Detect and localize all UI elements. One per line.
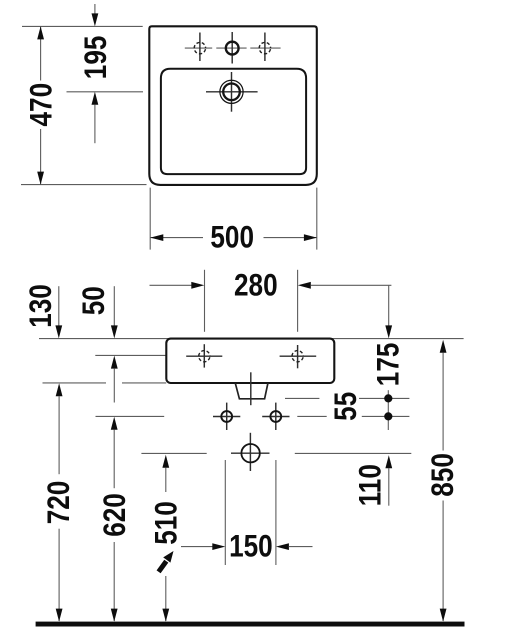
bolt hole right crosshair (262, 416, 289, 418)
dimension 850 line bottom (442, 501, 444, 622)
floor line (36, 622, 465, 627)
svg-text:500: 500 (210, 220, 254, 255)
bolt hole left circle (221, 411, 232, 422)
front view: bolt-hole reference line D (96, 415, 165, 417)
dimension 50 arrow down (111, 325, 118, 338)
dimension 280 arrow left-pointing (298, 282, 311, 289)
280 extension line right (297, 270, 299, 332)
dimension 470 line (40, 27, 42, 81)
tap hole crosshair vertical (231, 72, 233, 112)
faucet hole centre (solid circle) (226, 42, 239, 55)
dimension 50 arrow line bottom (113, 368, 115, 402)
dimension 175 arrow line (388, 285, 390, 326)
svg-text:110: 110 (353, 464, 388, 506)
svg-text:470: 470 (24, 83, 59, 127)
front view: basin-bottom reference line C (43, 382, 107, 384)
top view: extension line tap-hole centre (195 lower ref) (67, 91, 144, 93)
dimension 510 arrow down (162, 609, 169, 622)
fixing hole left crosshair (186, 355, 222, 357)
dimension 195 line top (94, 4, 96, 15)
front view: fixing-hole reference line B (95, 354, 166, 356)
faucet hole centre vertical centreline (231, 32, 233, 64)
dimension 195 arrow down (92, 13, 99, 26)
top view: extension line top (470/195 upper ref) (22, 25, 143, 27)
faucet hole right (dashed circle) (259, 42, 270, 53)
dimension 620 arrow up (111, 417, 118, 430)
dimension 620 arrow down (111, 609, 118, 622)
basin front outline (166, 339, 334, 383)
fixing hole left (dashed circle) (199, 351, 210, 362)
svg-text:510: 510 (149, 501, 184, 545)
tap hole crosshair horizontal (206, 91, 258, 93)
tap hole outer circle (220, 80, 243, 103)
front view: outlet reference line E (141, 452, 206, 454)
dimension 50 arrow up (111, 356, 118, 369)
dimension 150 arrow left-pointing (276, 543, 289, 550)
faucet hole left (dashed circle) (194, 42, 205, 53)
svg-text:130: 130 (24, 284, 59, 328)
dimension 280 right tail (311, 284, 392, 286)
outlet circle (241, 444, 259, 462)
siphon trapezoid (235, 383, 268, 399)
dimension 850 arrow up (440, 340, 447, 353)
dimension 510 line bottom (165, 576, 167, 621)
280 extension line left (204, 270, 206, 332)
dimension 620 line top (113, 430, 115, 489)
dimension 500 arrow right (304, 234, 317, 241)
faucet hole right vertical centreline (264, 33, 266, 62)
dimension 195 line bottom (94, 105, 96, 144)
bolt hole right circle (270, 411, 281, 422)
dimension 470 arrow up (37, 26, 44, 39)
dimension 620 line bottom (113, 542, 115, 621)
dimension 470 arrow down (37, 172, 44, 185)
svg-text:175: 175 (371, 343, 406, 387)
svg-text:720: 720 (42, 481, 77, 525)
outlet direction arrow (bold diagonal) (159, 561, 167, 572)
dimension 110 arrow line (388, 468, 390, 506)
dimension 55 dot top (384, 394, 392, 402)
faucet centreline dashes (185, 47, 212, 49)
svg-text:620: 620 (98, 493, 133, 537)
dimension 175 arrow down (385, 325, 392, 338)
dimension 130 arrow down (55, 325, 62, 338)
dimension 850 arrow down (440, 609, 447, 622)
top view: extension line bottom (470 lower ref) (21, 184, 147, 186)
outlet crosshair (231, 452, 270, 454)
dimension 720 arrow up (56, 383, 63, 396)
tap hole inner circle (223, 84, 240, 101)
dimension 510 arrow up (162, 455, 169, 468)
dimension 720 line bottom (58, 529, 60, 621)
dimension 55 dot bottom (384, 412, 392, 420)
dimension 110 arrow up (385, 455, 392, 468)
siphon centreline (250, 372, 252, 405)
svg-text:55: 55 (329, 392, 364, 421)
bolt hole left crosshair (213, 416, 240, 418)
dimension 500 line (150, 237, 203, 239)
150 extension line left (224, 460, 226, 565)
svg-text:50: 50 (77, 286, 112, 315)
dimension 280 arrow right-pointing (191, 282, 204, 289)
basin inner bowl outline (top view) (161, 69, 306, 174)
dimension 55 connector line (387, 390, 389, 430)
fixing hole right (dashed circle) (292, 351, 303, 362)
dimension 850 line top (442, 353, 444, 451)
svg-text:280: 280 (234, 268, 278, 303)
top view: 500 extension line left (149, 188, 151, 250)
front view: siphon-bottom reference line (285, 397, 319, 399)
fixing hole right crosshair (280, 355, 317, 357)
basin outer outline (top view) (149, 26, 316, 185)
front view: wall-top reference line A (39, 338, 464, 340)
svg-text:195: 195 (79, 36, 114, 80)
dimension 150 right tail (289, 546, 313, 548)
dimension 50 arrow line top (113, 286, 115, 326)
dimension 500 arrow left (150, 234, 163, 241)
svg-text:150: 150 (229, 529, 273, 564)
150 extension line right (275, 460, 277, 565)
dimension 130 arrow line (58, 286, 60, 326)
dimension 720 arrow down (56, 609, 63, 622)
dimension 280 left tail (150, 284, 192, 286)
svg-text:850: 850 (426, 453, 461, 497)
faucet hole left vertical centreline (199, 33, 201, 62)
top view: 500 extension line right (316, 188, 318, 250)
dimension 195 arrow up (92, 92, 99, 105)
dimension 150 left tail (181, 546, 213, 548)
dimension 720 line top (58, 396, 60, 474)
dimension 150 arrow right-pointing (212, 543, 225, 550)
dimension 510 line top (165, 468, 167, 493)
